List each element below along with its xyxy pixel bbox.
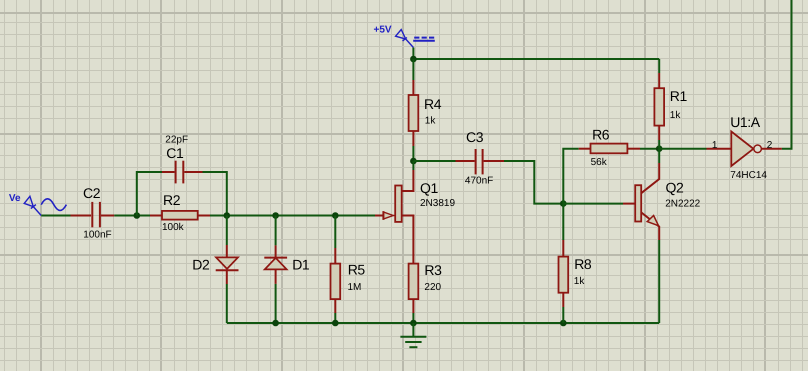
node C (D1)	[272, 212, 279, 219]
resistor R6	[579, 148, 591, 150]
svg-text:2: 2	[767, 140, 773, 151]
svg-text:Ve: Ve	[9, 193, 21, 204]
transistor Q2 (NPN)	[623, 203, 635, 205]
svg-text:470nF: 470nF	[465, 175, 493, 186]
wire R5 to bottom rail	[334, 313, 336, 323]
svg-text:220: 220	[424, 282, 441, 293]
wire D2 to bottom rail	[226, 284, 228, 323]
svg-text:R3: R3	[424, 262, 442, 278]
svg-text:1k: 1k	[670, 110, 682, 121]
resistor R2	[150, 215, 162, 217]
node E (D1 bottom)	[272, 320, 279, 327]
sine wave symbol	[41, 199, 66, 211]
wire U1 output up	[782, 0, 792, 149]
svg-text:56k: 56k	[591, 157, 608, 168]
svg-text:R1: R1	[670, 88, 688, 104]
svg-text:Q1: Q1	[420, 180, 438, 196]
svg-text:R4: R4	[424, 96, 442, 112]
svg-text:2N3819: 2N3819	[420, 198, 455, 209]
wire Q2 emitter to bottom rail	[658, 240, 660, 323]
node B (C1/D2)	[224, 212, 231, 219]
wire input to C2	[41, 215, 70, 217]
svg-text:1: 1	[712, 140, 718, 151]
capacitor C1	[162, 171, 175, 173]
wire R1 to node L	[658, 140, 660, 149]
svg-text:2N2222: 2N2222	[665, 198, 700, 209]
resistor R4	[412, 59, 414, 80]
svg-text:D2: D2	[192, 256, 210, 272]
wire R3 to bottom rail	[412, 313, 414, 323]
svg-text:Q2: Q2	[666, 180, 684, 196]
svg-text:22pF: 22pF	[165, 135, 188, 146]
wire rail R2 to Q1 gate	[210, 215, 375, 217]
diode D1	[275, 216, 277, 246]
svg-text:1k: 1k	[574, 276, 586, 287]
wire R4 to node J	[412, 146, 414, 161]
resistor R1	[658, 73, 660, 88]
node H (R8 bottom)	[560, 320, 567, 327]
svg-text:1k: 1k	[425, 116, 437, 127]
capacitor C2	[71, 215, 92, 217]
svg-text:U1:A: U1:A	[730, 114, 761, 130]
wire node J to C3	[413, 160, 455, 162]
svg-text:100k: 100k	[162, 222, 185, 233]
node A (R2/C1 left)	[134, 212, 141, 219]
svg-text:C2: C2	[83, 185, 101, 201]
svg-text:R2: R2	[163, 192, 181, 208]
wire D1 to bottom rail	[275, 284, 277, 323]
node J (R4/C3/Q1)	[410, 158, 417, 165]
resistor R5	[334, 216, 336, 249]
wire node K down to R8	[562, 204, 564, 240]
wire R8 to bottom rail	[562, 307, 564, 323]
DC rail symbol	[414, 37, 434, 39]
resistor R8	[562, 240, 564, 257]
node F (R5 bottom)	[332, 320, 339, 327]
wire power stub	[412, 48, 414, 60]
svg-text:1M: 1M	[348, 282, 362, 293]
wire C1 branch right	[203, 172, 227, 216]
node I (+5V/R4)	[410, 56, 417, 63]
wire Q2 collector to node L	[658, 149, 660, 163]
input terminal Ve	[24, 196, 41, 215]
wire bottom rail	[227, 322, 659, 324]
diode D2	[226, 216, 228, 246]
wire node K up to R6	[563, 149, 578, 204]
power terminal +5V	[396, 30, 414, 48]
wire top rail	[413, 58, 659, 60]
node L (R1/R6/Q2/U1)	[656, 145, 663, 152]
wire C2 to node A	[114, 215, 150, 217]
capacitor C3	[456, 160, 475, 162]
resistor R3	[412, 230, 414, 264]
svg-text:C1: C1	[166, 145, 184, 161]
wire C1 branch left	[137, 172, 162, 216]
wire top rail to R1	[658, 59, 660, 73]
svg-text:100nF: 100nF	[83, 229, 111, 240]
wire C3 to node K	[504, 161, 563, 204]
ground	[412, 323, 414, 337]
svg-text:R5: R5	[348, 262, 366, 278]
node D (R5)	[332, 212, 339, 219]
svg-text:R8: R8	[574, 256, 592, 272]
op-amp U1:A (74HC14 inverter)	[707, 148, 732, 150]
svg-text:D1: D1	[292, 256, 310, 272]
node K (C3/R6/R8/Q2)	[560, 200, 567, 207]
svg-text:74HC14: 74HC14	[730, 170, 767, 181]
svg-text:+5V: +5V	[374, 25, 392, 36]
node G (R3/ground)	[410, 320, 417, 327]
wire R6 to node L	[640, 148, 659, 150]
svg-text:R6: R6	[592, 127, 610, 143]
wire node L to U1 input	[659, 148, 706, 150]
svg-text:C3: C3	[466, 129, 484, 145]
wire node K to Q2 base	[563, 203, 623, 205]
wire Q1 drain stub	[412, 161, 414, 170]
transistor Q1 (N-JFET)	[375, 215, 383, 217]
